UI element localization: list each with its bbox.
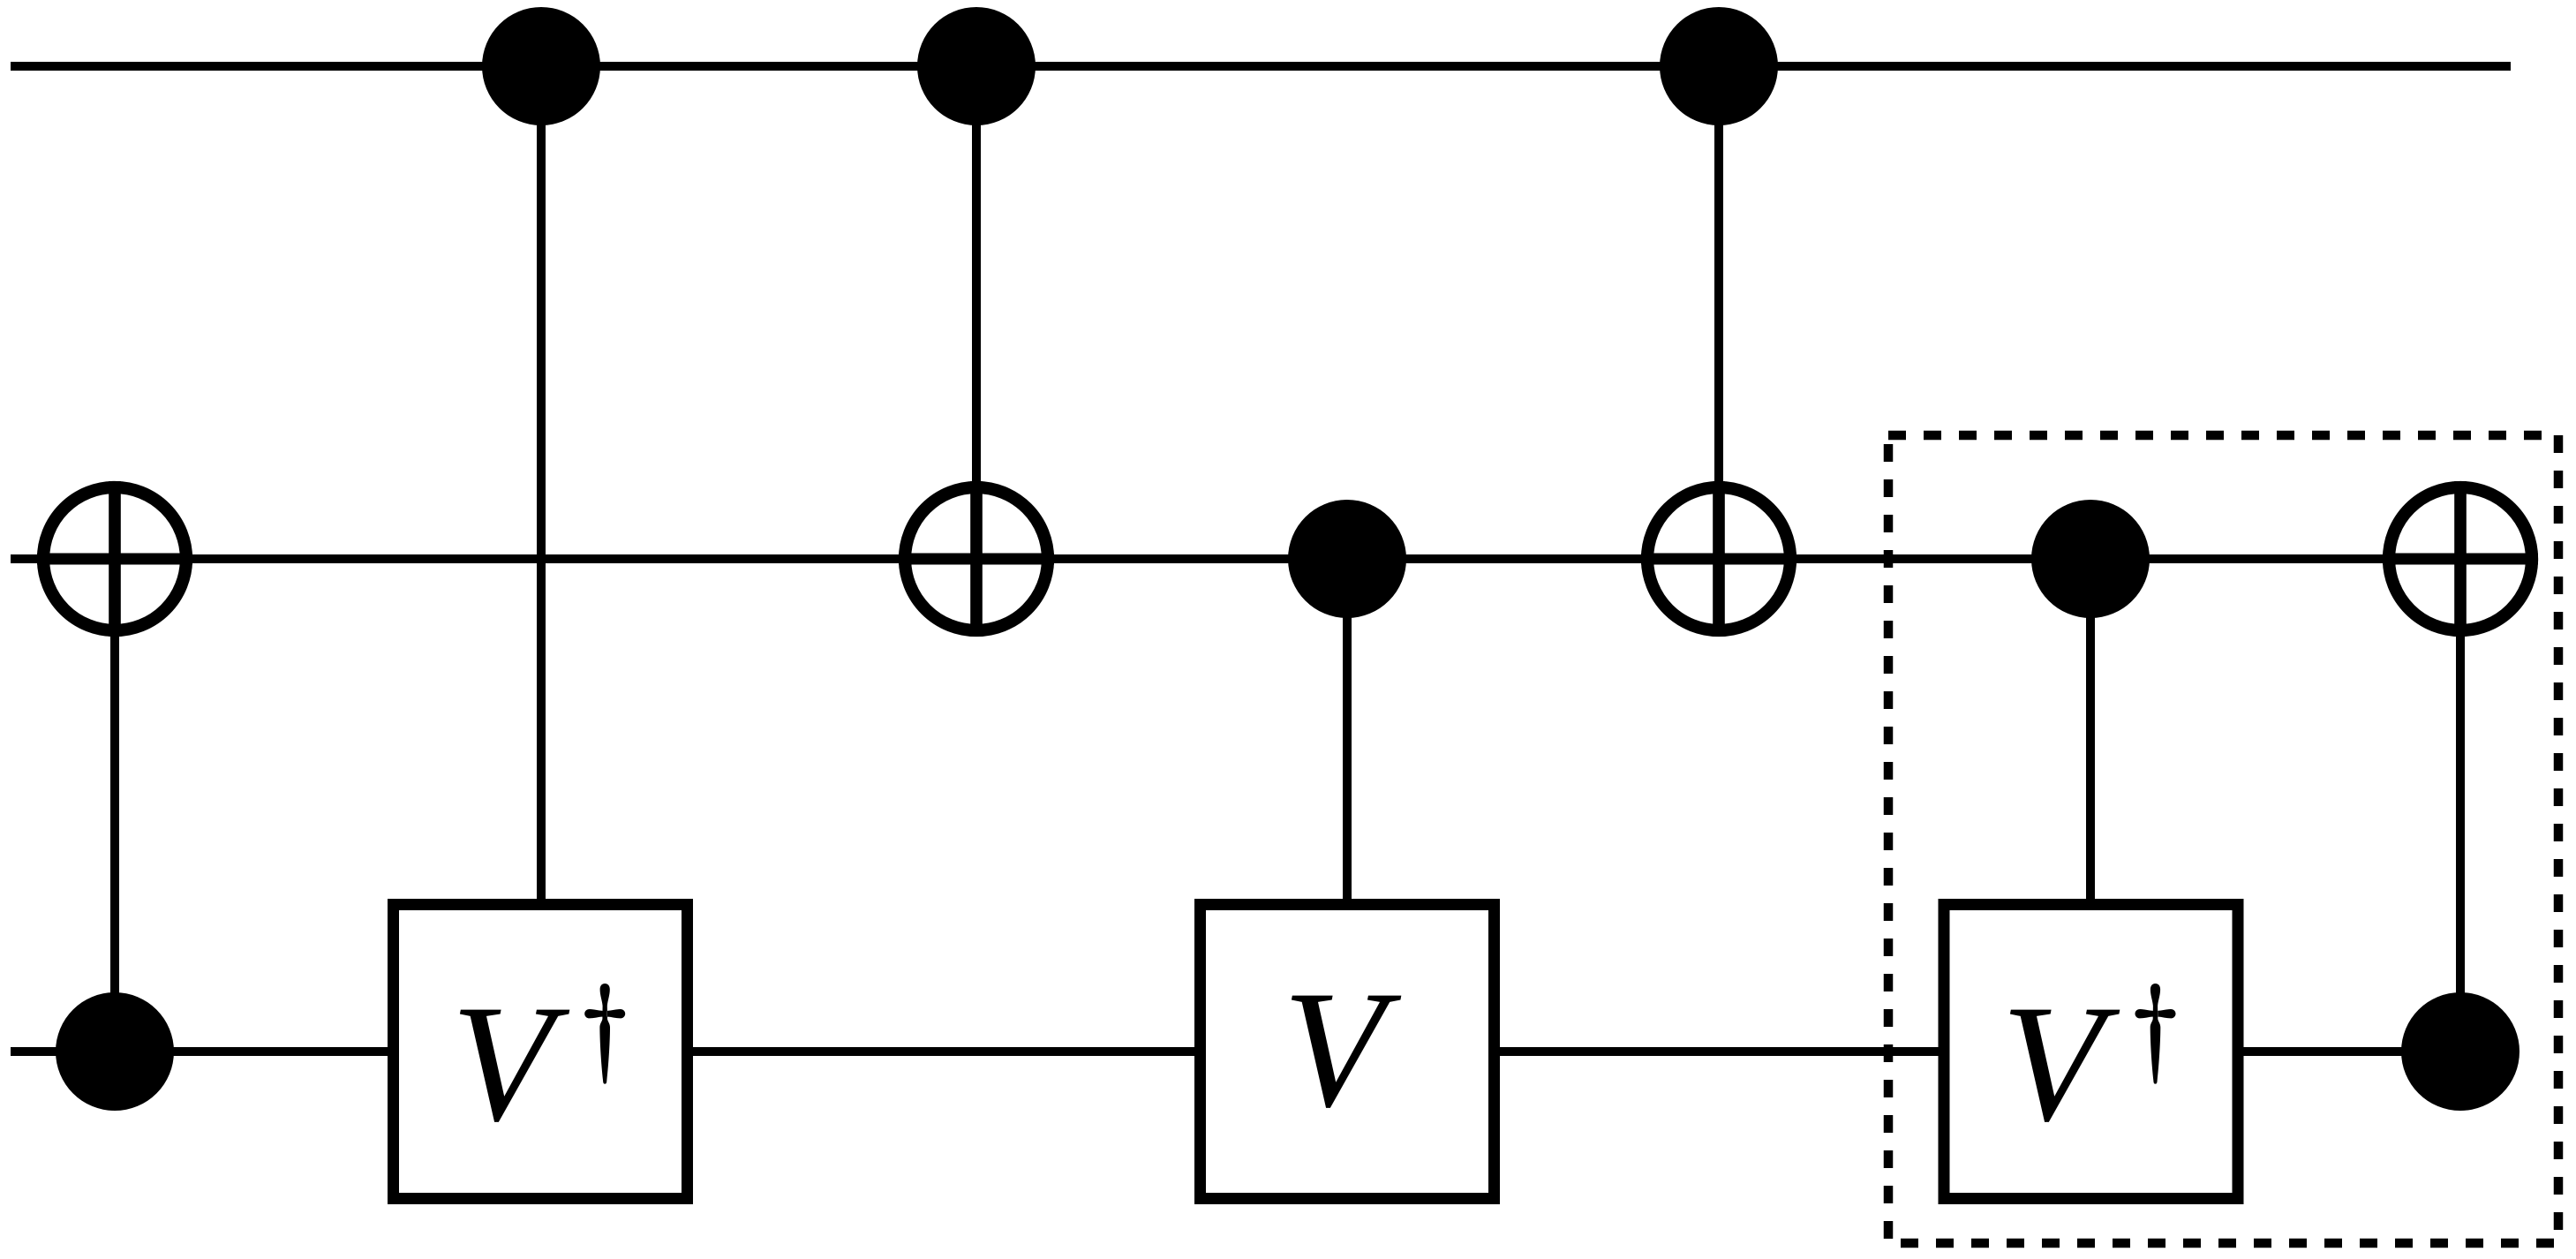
gate box U2 V <box>1201 905 1495 1199</box>
svg-text:V: V <box>451 971 570 1157</box>
CNOT target on q1 (gate 5) <box>1641 481 1796 637</box>
qubit wire q2 <box>11 1047 2511 1056</box>
wire CV3 vertical (q1 to V-dagger box) <box>2086 559 2095 899</box>
control dot on q0 (gate 5) <box>1660 7 1778 125</box>
CNOT target on q1 (gate 7) <box>2383 481 2538 637</box>
dashed highlight box <box>1888 435 2558 1243</box>
svg-text:V: V <box>1283 957 1402 1142</box>
control dot on q2 (gate 1) <box>56 992 174 1111</box>
CNOT target on q1 (gate 3) <box>899 481 1054 637</box>
qubit wire q1 <box>11 554 2511 563</box>
wire CV2 vertical (q1 to V box) <box>1343 559 1352 899</box>
gate box U3 V-dagger <box>1944 905 2238 1199</box>
qubit wire q0 <box>11 62 2511 71</box>
wire CNOT3 vertical (q0 to q1) <box>1714 66 1723 637</box>
wire CV1 vertical (q0 to V-dagger box) <box>537 66 546 899</box>
control dot on q1 (gate 4) <box>1288 500 1406 618</box>
control dot on q1 (gate 6) <box>2031 500 2150 618</box>
control dot on q0 (gate 3) <box>917 7 1036 125</box>
CNOT target on q1 (gate 1) <box>37 481 192 637</box>
gate box U1 V-dagger <box>394 905 688 1199</box>
control dot on q0 (gate 2) <box>482 7 600 125</box>
wire CNOT1 vertical (q1 to q2) <box>110 559 119 1052</box>
wire CNOT4 vertical (q1 to q2) <box>2456 559 2465 1052</box>
control dot on q2 (gate 7) <box>2401 992 2520 1111</box>
svg-text:V: V <box>2001 971 2120 1157</box>
wire CNOT2 vertical (q0 to q1) <box>972 66 981 637</box>
